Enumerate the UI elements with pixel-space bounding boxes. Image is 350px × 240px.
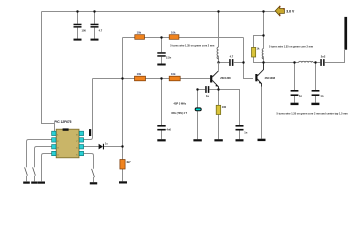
ground switch S2 [31, 182, 38, 184]
antenna [344, 17, 347, 50]
svg-text:IRG (70S) 4 T: IRG (70S) 4 T [172, 112, 188, 115]
note winding L3 [277, 112, 349, 115]
wire row1 drop to Q2 base [244, 38, 254, 79]
resistor R5 4k7 vertical [120, 160, 131, 170]
wire PIC pin1 VDD [51, 133, 54, 135]
svg-text:4SP 3 MHz: 4SP 3 MHz [174, 102, 187, 105]
svg-text:1n: 1n [244, 130, 247, 134]
svg-text:5 turns wire 1.35 on green cor: 5 turns wire 1.35 on green core 2 mm [269, 45, 314, 48]
ground crystal [193, 139, 201, 141]
wire capacitor C4 branch [161, 79, 163, 140]
net stub bar pin8 [89, 129, 91, 136]
svg-text:2.2n: 2.2n [166, 55, 172, 59]
ground switch S1 [23, 182, 30, 184]
wire bias vertical to R5 [122, 38, 124, 182]
svg-text:5 turns wire 1.35 on green cor: 5 turns wire 1.35 on green core 2 mm [170, 45, 215, 48]
diode D1 [99, 143, 109, 150]
wire PIC pin3 to switch S2 [35, 147, 52, 168]
wire Q1 collector riser [218, 63, 220, 71]
wire Q2 collector output line [253, 50, 345, 63]
svg-text:2SC1308: 2SC1308 [220, 77, 231, 80]
svg-text:10k: 10k [171, 72, 176, 76]
capacitor C7 coupling [229, 55, 234, 66]
svg-text:3.6 V: 3.6 V [286, 9, 295, 13]
svg-text:10k: 10k [171, 31, 176, 35]
IC U1 PIC 12F675 [52, 120, 84, 158]
capacitor C9 shunt [312, 90, 324, 98]
transistor Q2 [255, 63, 275, 87]
resistor R2 10k [169, 31, 179, 40]
switch S2 [33, 167, 36, 175]
supply arrow 3.6 V [275, 6, 295, 16]
transistor Q1 [210, 71, 231, 90]
inductor L1 [217, 47, 219, 59]
switch S3 [92, 169, 95, 177]
capacitor C5 emitter series [205, 86, 209, 98]
capacitor C6 bypass [236, 125, 248, 134]
wire choke L2 branch [263, 12, 265, 63]
svg-text:4.7: 4.7 [230, 55, 234, 59]
wire PIC pin4 to ground [42, 154, 52, 182]
svg-text:5 turns wire 1.35 on green cor: 5 turns wire 1.35 on green core 2 mm and… [277, 112, 349, 115]
inductor L2 choke [262, 49, 264, 60]
ground switch S3 [90, 182, 97, 184]
wire V+ top rail [42, 11, 276, 13]
resistor R7 1k yellow vertical [252, 46, 260, 57]
capacitor C8 shunt [291, 90, 303, 98]
wire L1 collector branch [218, 12, 220, 71]
wire PIC pin2 to switch S1 [27, 140, 52, 168]
wire row2 base line [93, 78, 211, 80]
capacitor C10 output series [320, 54, 326, 66]
capacitor C1 [74, 24, 87, 33]
ground C3 [157, 64, 165, 66]
wire capacitor C3 branch [161, 38, 163, 64]
wire resistor R7 parallel branch [254, 36, 264, 63]
note winding L1 [170, 45, 215, 48]
svg-text:2SC1308: 2SC1308 [265, 77, 276, 80]
wire PIC pin6 to diode [83, 146, 122, 148]
ground pin4 line [38, 182, 45, 184]
ground C2 [91, 39, 99, 41]
wire crystal X1 branch [197, 90, 199, 140]
inductor L3 low-pass [299, 61, 313, 62]
capacitor C3 [157, 52, 171, 59]
capacitor C2 [91, 24, 103, 33]
svg-text:100: 100 [82, 28, 87, 32]
wire coupling cap C7 link [219, 62, 244, 64]
resistor R3 10k [135, 72, 146, 81]
svg-text:1k: 1k [257, 46, 260, 50]
wire bypass capacitor C6 branch [219, 90, 240, 140]
svg-text:1n: 1n [299, 94, 302, 98]
wire row1 bias line [123, 37, 244, 39]
ground C8 [291, 103, 299, 105]
svg-text:1s: 1s [105, 143, 108, 146]
ground R5 [119, 181, 127, 183]
wire PIC pin5 to switch S3 [83, 154, 93, 169]
resistor R1 10k [135, 31, 145, 40]
switch S1 [25, 167, 28, 175]
ground C1 [74, 39, 82, 41]
svg-text:PIC 12F675: PIC 12F675 [54, 120, 71, 124]
svg-text:4n0: 4n0 [167, 127, 172, 131]
wire Q2 emitter to ground [261, 87, 263, 139]
svg-text:4k7: 4k7 [126, 160, 131, 164]
wire Q1 emitter node line [198, 89, 219, 91]
wire capacitor C2 leads [94, 12, 96, 39]
wire shunt capacitor C8 branch [294, 63, 296, 103]
wire switch S1 lower stub [26, 176, 28, 182]
wire shunt capacitor C9 branch [315, 63, 317, 103]
capacitor C4 [157, 125, 171, 131]
wire capacitor C1 leads [77, 12, 79, 39]
resistor R4 10k [169, 72, 180, 81]
svg-text:100: 100 [222, 105, 227, 109]
ground C4 [157, 139, 165, 141]
crystal X1 [172, 102, 202, 114]
wire switch S3 lower stub [93, 177, 95, 182]
svg-text:1n: 1n [320, 94, 323, 98]
svg-text:4.7: 4.7 [99, 28, 103, 32]
svg-text:1u: 1u [206, 94, 209, 98]
ground C6 [236, 139, 244, 141]
wire left supply rail [42, 12, 55, 134]
svg-text:2n2: 2n2 [321, 54, 326, 58]
ground R6 [214, 139, 222, 141]
wire emitter resistor R6 branch [218, 90, 220, 140]
note winding L2 [269, 45, 314, 48]
ground C9 [311, 103, 319, 105]
wire switch S2 lower stub [34, 176, 36, 182]
svg-text:10k: 10k [137, 31, 142, 35]
ground Q2 emitter [258, 139, 266, 141]
svg-text:10k: 10k [137, 72, 142, 76]
wire V+ to supply arrow [264, 11, 276, 13]
resistor R6 100 yellow vertical [216, 105, 226, 115]
wire row2 to PIC pin 7 [83, 79, 92, 140]
